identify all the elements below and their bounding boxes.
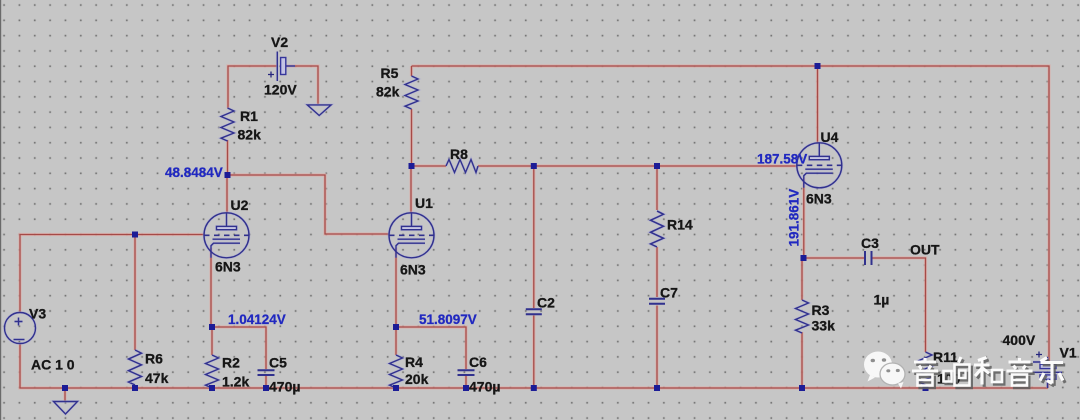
svg-text:R4: R4 xyxy=(405,354,423,370)
svg-text:V1: V1 xyxy=(1060,345,1077,361)
svg-text:C5: C5 xyxy=(269,355,287,371)
svg-text:R11: R11 xyxy=(933,349,958,365)
svg-text:187.58V: 187.58V xyxy=(757,152,807,167)
svg-text:OUT: OUT xyxy=(910,242,940,258)
svg-text:48.8484V: 48.8484V xyxy=(165,165,223,180)
svg-text:33k: 33k xyxy=(812,318,836,334)
svg-text:120V: 120V xyxy=(264,82,297,98)
svg-text:470µ: 470µ xyxy=(269,379,300,395)
svg-text:6N3: 6N3 xyxy=(215,259,241,275)
svg-text:R2: R2 xyxy=(222,355,240,371)
svg-text:191.861V: 191.861V xyxy=(787,189,802,247)
svg-text:51.8097V: 51.8097V xyxy=(419,312,477,327)
svg-text:1.2k: 1.2k xyxy=(222,374,249,390)
svg-text:47k: 47k xyxy=(145,370,169,386)
svg-text:V3: V3 xyxy=(29,306,46,322)
svg-text:6N3: 6N3 xyxy=(400,262,426,278)
svg-text:470µ: 470µ xyxy=(469,379,500,395)
svg-text:R5: R5 xyxy=(381,65,399,81)
svg-text:1µ: 1µ xyxy=(874,292,890,308)
svg-text:C6: C6 xyxy=(469,354,487,370)
svg-text:C7: C7 xyxy=(660,285,678,301)
svg-text:C2: C2 xyxy=(537,295,555,311)
svg-text:AC 1 0: AC 1 0 xyxy=(31,357,75,373)
svg-text:U4: U4 xyxy=(821,129,839,145)
svg-text:R8: R8 xyxy=(450,146,468,162)
svg-text:6N3: 6N3 xyxy=(806,191,832,207)
svg-text:R6: R6 xyxy=(145,351,163,367)
svg-text:V2: V2 xyxy=(271,34,288,50)
svg-text:R14: R14 xyxy=(667,217,693,233)
svg-text:R3: R3 xyxy=(812,302,830,318)
svg-text:82k: 82k xyxy=(238,127,262,143)
svg-text:82k: 82k xyxy=(376,84,400,100)
svg-text:R1: R1 xyxy=(240,108,258,124)
svg-text:20k: 20k xyxy=(405,371,429,387)
svg-text:C3: C3 xyxy=(861,235,879,251)
svg-text:1.04124V: 1.04124V xyxy=(228,312,286,327)
svg-text:U1: U1 xyxy=(415,195,433,211)
svg-text:U2: U2 xyxy=(231,197,249,213)
svg-text:400V: 400V xyxy=(1003,332,1036,348)
